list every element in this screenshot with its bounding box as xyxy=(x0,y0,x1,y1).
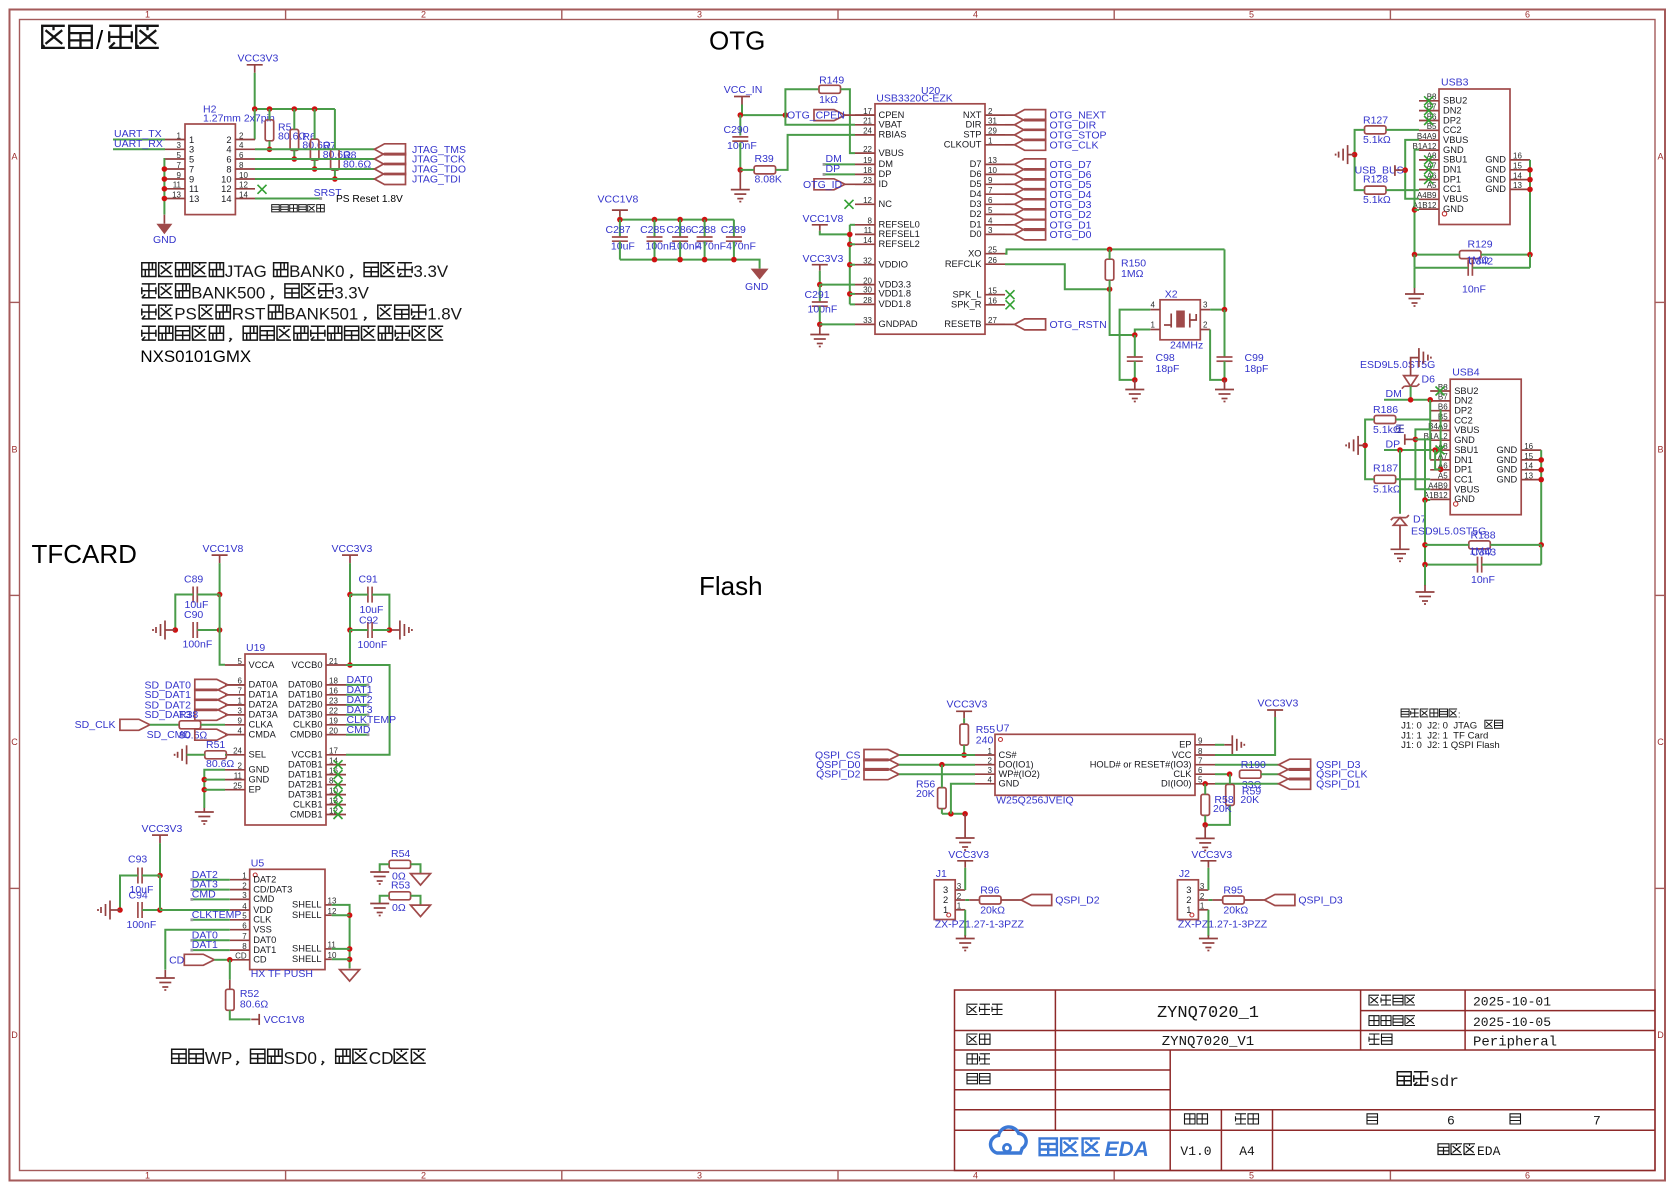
wire end xyxy=(367,693,370,696)
svg-text:1MΩ: 1MΩ xyxy=(1121,268,1144,280)
ground xyxy=(956,936,975,951)
note text line4 xyxy=(142,326,443,342)
note text line2 xyxy=(142,283,370,302)
net port QSPI_D0 xyxy=(864,759,899,770)
resistor R149 xyxy=(819,75,844,106)
junction xyxy=(347,946,353,952)
wire xyxy=(965,899,969,901)
svg-text:ZX-PZ1.27-1-3PZZ: ZX-PZ1.27-1-3PZZ xyxy=(935,918,1025,930)
junction xyxy=(1202,781,1208,787)
wire xyxy=(159,876,161,911)
svg-text:DAT2B0: DAT2B0 xyxy=(288,700,322,710)
svg-text:X2: X2 xyxy=(1165,289,1178,301)
svg-text:STP: STP xyxy=(963,130,981,140)
wire R7 top xyxy=(314,109,316,139)
svg-text:PS: PS xyxy=(174,305,197,324)
X2 pin 4 xyxy=(1150,300,1160,309)
svg-text:15: 15 xyxy=(1513,162,1522,171)
USB3 pin B4A9 VBUS xyxy=(1417,132,1468,145)
U19 pin 19 CLKB0 xyxy=(293,717,346,730)
junction xyxy=(1538,457,1544,463)
svg-text:15: 15 xyxy=(988,287,997,296)
svg-text:27: 27 xyxy=(988,316,997,325)
svg-text:6: 6 xyxy=(239,151,244,160)
svg-text:5: 5 xyxy=(238,657,243,666)
capacitor C92 xyxy=(368,622,372,638)
svg-text:J2: J2 xyxy=(1179,868,1190,880)
svg-text:SD0: SD0 xyxy=(284,1048,317,1068)
no-connect X xyxy=(1424,116,1433,125)
wire VDD3.3 xyxy=(820,284,855,286)
wire end xyxy=(190,918,193,921)
U7 pin 1 CS# xyxy=(975,747,1017,760)
svg-text:2: 2 xyxy=(242,881,247,890)
USB4 pin A1B12 marker xyxy=(1454,502,1458,506)
USB4 pin A1B12 GND xyxy=(1424,491,1475,504)
svg-text:0Ω: 0Ω xyxy=(392,902,406,914)
U20 pin 1 CLKOUT xyxy=(944,137,1005,150)
svg-text:DP2: DP2 xyxy=(1454,406,1472,416)
svg-text:1: 1 xyxy=(943,905,948,915)
U19 pin 5 VCCA xyxy=(225,657,275,670)
net port OTG_CLK xyxy=(1015,139,1099,151)
frame tick xyxy=(285,10,287,20)
svg-text:SHELL: SHELL xyxy=(292,900,321,910)
U20 pin 17 CPEN xyxy=(855,107,904,120)
svg-text:2025-10-01: 2025-10-01 xyxy=(1473,995,1551,1010)
svg-text:B5: B5 xyxy=(1438,412,1448,421)
junction xyxy=(652,217,658,223)
wire xyxy=(619,220,621,237)
wire xyxy=(372,595,389,630)
no-connect X xyxy=(334,760,343,769)
capacitor C89 xyxy=(193,587,197,603)
junction xyxy=(162,196,168,202)
U20 pin 23 ID xyxy=(855,176,888,189)
svg-text:3: 3 xyxy=(988,226,993,235)
wire X2 pin3 xyxy=(1210,309,1224,311)
U20 pin 19 DM xyxy=(855,156,893,169)
wire end xyxy=(367,713,370,716)
svg-text:80.6Ω: 80.6Ω xyxy=(240,998,268,1010)
net label (rotated) on VBUS column xyxy=(1396,425,1415,445)
svg-text:11: 11 xyxy=(173,181,182,190)
net port JTAG_TMS xyxy=(375,144,467,156)
svg-text:9: 9 xyxy=(238,717,243,726)
svg-text:ZX-PZ1.27-1-3PZZ: ZX-PZ1.27-1-3PZZ xyxy=(1178,918,1268,930)
wire xyxy=(1261,773,1279,775)
svg-text:2: 2 xyxy=(239,131,244,140)
wire xyxy=(228,704,245,706)
frame tick xyxy=(10,301,20,303)
svg-text:3: 3 xyxy=(177,141,182,150)
svg-text:WP: WP xyxy=(205,1048,233,1068)
U5 pin 13 SHELL xyxy=(292,897,337,910)
U19 pin 22 DAT3B0 xyxy=(288,707,346,720)
svg-text:CC2: CC2 xyxy=(1443,125,1462,135)
net port OTG_D1 xyxy=(1015,219,1092,231)
svg-text:12: 12 xyxy=(863,196,872,205)
net port OTG_NEXT xyxy=(1015,110,1107,122)
no-connect X xyxy=(1424,96,1433,105)
U5 pin 2 CD/DAT3 xyxy=(230,881,292,894)
ground xyxy=(1125,380,1144,402)
wire USB4 right GND column xyxy=(1540,450,1542,545)
svg-text:100nF: 100nF xyxy=(127,919,157,931)
svg-text:REFSEL2: REFSEL2 xyxy=(879,239,920,249)
svg-text:4: 4 xyxy=(988,217,993,226)
J1 pin 2 xyxy=(943,892,965,905)
wire VBUS column xyxy=(1415,429,1430,489)
svg-text:CMD: CMD xyxy=(253,894,274,904)
title block label 尺寸 xyxy=(1236,1114,1259,1124)
wire R39 left xyxy=(740,169,754,171)
frame tick xyxy=(837,10,839,20)
wire xyxy=(733,241,735,259)
svg-text:3: 3 xyxy=(1186,885,1191,895)
U5 pin 12 SHELL xyxy=(292,907,337,920)
svg-text:VCC3V3: VCC3V3 xyxy=(1191,849,1232,861)
USB3 pin A1B12 marker xyxy=(1442,212,1446,216)
junction xyxy=(948,811,954,817)
connector USB3 xyxy=(1439,77,1510,225)
svg-text:20K: 20K xyxy=(1240,794,1259,806)
frame tick xyxy=(1655,301,1665,303)
wire R186-R187 left column xyxy=(1365,420,1374,480)
power VCC3V3 xyxy=(1258,698,1299,718)
wire xyxy=(619,216,621,220)
wire xyxy=(1005,233,1015,235)
wire GND chain xyxy=(204,770,225,808)
svg-text:4: 4 xyxy=(226,145,231,155)
wire R54 left xyxy=(380,864,389,872)
wire xyxy=(1415,438,1430,440)
svg-text:VBAT: VBAT xyxy=(879,120,903,130)
svg-text:U19: U19 xyxy=(246,642,265,654)
USB3 pin B6 DP2 xyxy=(1419,112,1461,125)
wire xyxy=(372,629,389,631)
wire R127 to CC2 xyxy=(1386,129,1419,131)
USB4 pin B4A9 VBUS xyxy=(1428,422,1479,435)
power VCC1V8 xyxy=(251,1014,304,1026)
no-connect X xyxy=(334,790,343,799)
svg-text:10: 10 xyxy=(221,174,231,184)
svg-text:R95: R95 xyxy=(1223,885,1242,897)
wire VCC1V8 to REFSEL1 xyxy=(820,231,850,235)
wire R187 to CC1 xyxy=(1396,478,1431,480)
svg-text:SPK_L: SPK_L xyxy=(953,290,982,300)
USB4 pin 15 GND xyxy=(1497,452,1542,465)
net port OTG_STOP xyxy=(1015,129,1107,141)
wire to C290 xyxy=(739,115,741,135)
svg-text:W25Q256JVEIQ: W25Q256JVEIQ xyxy=(996,794,1074,806)
resistor R5 xyxy=(265,120,306,143)
wire C290 to gnd rail xyxy=(739,143,741,170)
svg-text:6: 6 xyxy=(1447,1114,1455,1129)
wire C90 right xyxy=(197,629,219,631)
wire VCC to pin3 xyxy=(964,868,966,890)
svg-text:JTAG_TDI: JTAG_TDI xyxy=(412,174,461,186)
svg-text:13: 13 xyxy=(1524,471,1533,480)
svg-text:2: 2 xyxy=(421,10,426,20)
U20 pin 5 D2 xyxy=(970,206,1005,219)
wire R5 bottom xyxy=(269,141,271,150)
svg-text:1: 1 xyxy=(242,872,247,881)
wire SD_CLK xyxy=(150,724,180,726)
wire R127-R128 left column xyxy=(1355,130,1365,190)
wire GND column xyxy=(1425,439,1430,500)
svg-text:DAT2: DAT2 xyxy=(253,875,276,885)
wire R56 top xyxy=(941,765,943,788)
svg-text:C: C xyxy=(1657,737,1664,747)
wire VCC to pin3 xyxy=(1207,868,1209,890)
svg-text:CC2: CC2 xyxy=(1454,415,1473,425)
wire H2 ground chain xyxy=(163,159,166,215)
svg-text:VCC3V3: VCC3V3 xyxy=(803,253,844,265)
junction xyxy=(267,147,273,153)
svg-text:D6: D6 xyxy=(1422,373,1436,385)
wire R53 left xyxy=(380,896,389,904)
wire xyxy=(1399,525,1401,549)
frame tick xyxy=(1655,887,1665,889)
svg-text:18: 18 xyxy=(329,677,338,686)
svg-text:BANK501: BANK501 xyxy=(284,305,358,324)
no-connect X xyxy=(1424,106,1433,115)
U20 pin 7 D4 xyxy=(970,186,1005,199)
U20 pin 18 DP xyxy=(855,166,891,179)
U20 pin 24 RBIAS xyxy=(855,127,906,140)
wire R58 bottom xyxy=(1204,815,1206,825)
resistor R150 xyxy=(1105,258,1146,281)
wire R129 right xyxy=(1481,254,1530,256)
junction xyxy=(292,106,298,112)
junction xyxy=(1527,252,1533,258)
USB3 pin A4B9 VBUS xyxy=(1417,191,1468,204)
wire R128 to CC1 xyxy=(1386,189,1419,191)
ground xyxy=(156,215,172,235)
wire end xyxy=(190,949,193,952)
U19 pin 4 CMDA xyxy=(225,727,277,740)
wire xyxy=(349,595,351,630)
wire R186 to CC2 xyxy=(1396,419,1431,421)
net port OTG_DIR xyxy=(1015,119,1097,131)
junction xyxy=(702,217,708,223)
title block label 原理图 xyxy=(967,1004,1003,1014)
wire DAT3 xyxy=(346,714,368,716)
net port QSPI_D3 xyxy=(1279,759,1361,771)
svg-text:C285: C285 xyxy=(640,224,665,236)
svg-text:R186: R186 xyxy=(1373,404,1398,416)
wire xyxy=(969,899,979,901)
junction xyxy=(1422,562,1428,568)
svg-text:QSPI_D1: QSPI_D1 xyxy=(1316,778,1361,790)
wire xyxy=(1005,213,1015,215)
svg-text:CD: CD xyxy=(253,955,267,965)
svg-text:VBUS: VBUS xyxy=(1443,135,1468,145)
svg-text:XO: XO xyxy=(968,249,981,259)
svg-text:VCCB0: VCCB0 xyxy=(291,660,322,670)
USB3 pin A6 DP1 xyxy=(1419,171,1461,184)
svg-text:12: 12 xyxy=(221,184,231,194)
frame tick xyxy=(1389,1171,1391,1181)
junction xyxy=(312,166,318,172)
svg-text:DAT3B0: DAT3B0 xyxy=(288,710,322,720)
no-connect X xyxy=(334,770,343,779)
junction xyxy=(961,752,967,758)
svg-text:VBUS: VBUS xyxy=(1454,484,1479,494)
J2 pin 3 xyxy=(1186,882,1208,895)
junction xyxy=(1227,771,1233,777)
title block label 版本 xyxy=(1185,1114,1208,1124)
ground xyxy=(751,269,769,280)
svg-text:R127: R127 xyxy=(1363,115,1388,127)
svg-text:D: D xyxy=(1657,1030,1664,1040)
U5 pin 3 CMD xyxy=(230,891,275,904)
svg-text:22: 22 xyxy=(863,145,872,154)
resistor R38 xyxy=(179,709,207,742)
wire R6 bottom xyxy=(293,150,295,159)
frame tick xyxy=(1389,10,1391,20)
svg-text:30: 30 xyxy=(863,286,872,295)
svg-text:SHELL: SHELL xyxy=(292,944,321,954)
title block label 创建日期 xyxy=(1369,995,1415,1005)
U20 pin 20 VDD3.3 xyxy=(855,276,911,289)
diode D7 ESD9L5.0ST5G xyxy=(1391,514,1427,526)
svg-text:REFSEL1: REFSEL1 xyxy=(879,229,920,239)
svg-text:18: 18 xyxy=(863,166,872,175)
resistor R190 xyxy=(1240,770,1262,778)
junction xyxy=(847,242,853,248)
wire C343 right xyxy=(1482,564,1542,566)
svg-text:R51: R51 xyxy=(206,739,225,751)
frame tick xyxy=(1113,1171,1115,1181)
svg-text:UART_RX: UART_RX xyxy=(114,138,163,150)
wire DAT2 xyxy=(346,704,368,706)
junction xyxy=(202,787,208,793)
J1 pin 3 xyxy=(943,882,965,895)
capacitor C291 xyxy=(812,302,828,306)
wire R52 to VCC1V8 xyxy=(230,1010,251,1019)
svg-text:VBUS: VBUS xyxy=(879,148,904,158)
svg-text:19: 19 xyxy=(863,156,872,165)
wire xyxy=(332,948,350,950)
wire pin1 to ground xyxy=(964,910,966,936)
svg-text:OTG_CPEN: OTG_CPEN xyxy=(787,110,845,122)
wire R5 top xyxy=(269,109,271,120)
wire C343 left xyxy=(1425,564,1478,566)
U19 pin 9 CLKA xyxy=(225,717,274,730)
svg-text:DP1: DP1 xyxy=(1443,174,1461,184)
svg-text:100nF: 100nF xyxy=(727,140,757,152)
junction xyxy=(1413,437,1419,443)
svg-text:15: 15 xyxy=(1524,452,1533,461)
svg-text:VCC1V8: VCC1V8 xyxy=(203,543,244,555)
U20 pin 6 D3 xyxy=(970,196,1005,209)
svg-text:OTG_CLK: OTG_CLK xyxy=(1050,139,1099,151)
U5 pin 7 DAT0 xyxy=(230,932,276,945)
svg-text:HOLD# or RESET#(IO3): HOLD# or RESET#(IO3) xyxy=(1090,760,1192,770)
USB3 pin A1B12 GND xyxy=(1412,201,1463,214)
resistor R59 xyxy=(1226,784,1235,805)
USB4 pin B7 DN2 xyxy=(1430,393,1473,406)
svg-text:8: 8 xyxy=(1198,747,1203,756)
wire to C99 xyxy=(1224,310,1226,357)
svg-text:16: 16 xyxy=(329,687,338,696)
title block label 审阅 xyxy=(967,1074,990,1084)
wire xyxy=(654,220,656,237)
no-connect X xyxy=(334,800,343,809)
svg-text:33: 33 xyxy=(863,316,872,325)
wire VDD xyxy=(160,909,230,911)
wire GNDPAD xyxy=(820,323,855,325)
wire REFSEL2 xyxy=(850,243,855,245)
svg-text:470nF: 470nF xyxy=(696,241,726,253)
resistor R187 xyxy=(1373,463,1401,496)
resistor R51 xyxy=(205,739,235,770)
ground xyxy=(1416,585,1435,604)
wire xyxy=(1005,144,1015,146)
svg-text:NXS0101GMX: NXS0101GMX xyxy=(140,347,251,366)
svg-text:VCC3V3: VCC3V3 xyxy=(238,53,279,65)
junction xyxy=(387,627,393,633)
svg-text:WP#(IO2): WP#(IO2) xyxy=(999,769,1040,779)
ground xyxy=(340,969,360,982)
svg-text:VCC3V3: VCC3V3 xyxy=(947,699,988,711)
resistor R55 xyxy=(960,724,995,746)
wire R8 top xyxy=(334,109,336,149)
svg-text:CLK: CLK xyxy=(1173,769,1192,779)
wire to R52 xyxy=(229,960,231,980)
U5 pin 1 DAT2 xyxy=(230,872,276,885)
svg-text:2: 2 xyxy=(226,135,231,145)
no-connect X xyxy=(334,780,343,789)
power VCC3V3 xyxy=(803,253,844,271)
junction xyxy=(347,912,353,918)
junction xyxy=(1362,443,1368,449)
svg-text:GND: GND xyxy=(1454,435,1475,445)
junction xyxy=(1222,377,1228,383)
U19 pin 14 DAT0B1 xyxy=(288,757,346,770)
USB3 pin B7 DN2 xyxy=(1419,102,1462,115)
svg-text:R54: R54 xyxy=(391,848,410,860)
svg-text:REFSEL0: REFSEL0 xyxy=(879,220,920,230)
svg-text:BANK0: BANK0 xyxy=(289,262,344,281)
wire JTAG_TMS xyxy=(255,148,375,150)
wire xyxy=(1005,124,1015,126)
junction xyxy=(1527,177,1533,183)
svg-text:1MΩ: 1MΩ xyxy=(1470,545,1493,557)
net port OTG_RSTN xyxy=(1015,319,1107,331)
junction xyxy=(783,112,789,118)
svg-text:VBUS: VBUS xyxy=(1443,194,1468,204)
svg-text:SD_CMD: SD_CMD xyxy=(147,729,192,741)
USB4 pin B8 SBU2 xyxy=(1430,383,1478,396)
svg-text:6: 6 xyxy=(226,154,231,164)
svg-text:3: 3 xyxy=(943,885,948,895)
svg-text:1: 1 xyxy=(1186,905,1191,915)
ground xyxy=(98,901,120,920)
junction xyxy=(652,257,658,263)
wire R7 bottom xyxy=(314,160,316,169)
wire xyxy=(679,241,681,259)
capacitor C94 xyxy=(138,902,142,918)
wire JTAG_TCK xyxy=(255,158,375,160)
wire to VCCA xyxy=(220,595,225,665)
svg-text:21: 21 xyxy=(863,117,872,126)
wire CMD xyxy=(346,734,368,736)
svg-text:VCC: VCC xyxy=(1172,750,1192,760)
svg-text:1: 1 xyxy=(1200,902,1205,911)
